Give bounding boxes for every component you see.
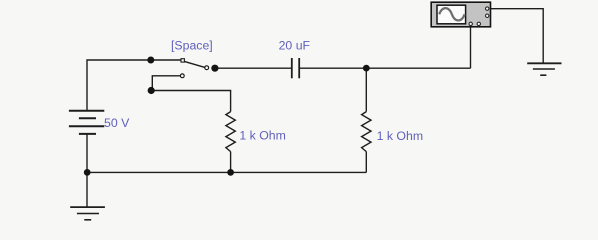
svg-text:1 k Ohm: 1 k Ohm [239, 129, 285, 143]
svg-text:1 k Ohm: 1 k Ohm [377, 129, 423, 143]
svg-text:20 uF: 20 uF [279, 38, 311, 52]
svg-text:50 V: 50 V [104, 116, 130, 130]
svg-text:[Space]: [Space] [171, 38, 213, 52]
